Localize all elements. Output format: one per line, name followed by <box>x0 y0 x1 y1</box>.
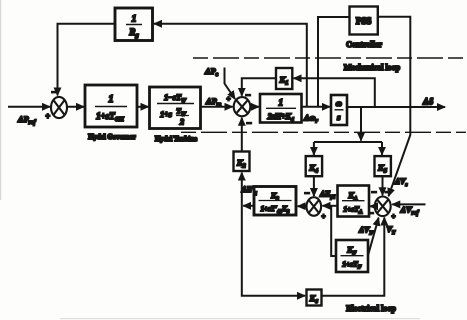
wire Δδ branch down to K4/K5 <box>360 107 362 140</box>
wire turbine to S2 <box>201 106 233 108</box>
dashed boundary line (mechanical/electrical split) <box>181 131 466 133</box>
svg-text:Controller: Controller <box>346 40 382 49</box>
wire speed to PSS input <box>318 17 350 106</box>
wire K_F output to S4 (ΔV_F) <box>368 218 379 256</box>
block K5 <box>375 156 391 176</box>
wire S3 to field block <box>298 205 307 207</box>
wire ΔV_ref input <box>392 203 425 205</box>
wire K6 to S4 bottom (V_T) <box>322 218 385 296</box>
svg-text:PSS: PSS <box>356 16 372 26</box>
block turbine (1-sT_W)/(1+sT_W/2) <box>150 87 201 129</box>
svg-text:2: 2 <box>179 118 184 127</box>
wire Δδ tap to K1 <box>294 78 375 106</box>
svg-text:1: 1 <box>278 98 283 108</box>
scan artifact bottom edge <box>60 318 420 320</box>
svg-text:1+s: 1+s <box>160 110 172 119</box>
svg-text:+: + <box>227 95 231 103</box>
summing junction S4 (voltage) <box>375 197 391 217</box>
svg-text:−: − <box>372 187 377 197</box>
block swing 1/(2sH+K_d) <box>260 94 302 123</box>
svg-text:s: s <box>336 112 341 122</box>
wire ΔP_e disturbance input <box>225 68 236 100</box>
block governor 1/(1+sT_GH) <box>85 85 137 127</box>
wire K4 to S3 <box>313 176 315 196</box>
svg-text:Electrical loop: Electrical loop <box>346 304 396 313</box>
wire 1/R_g output to S1 top <box>58 24 116 96</box>
block K_F/(1+sT_F) <box>336 240 368 272</box>
svg-text:1: 1 <box>109 94 114 105</box>
svg-text:+: + <box>392 213 396 221</box>
dashed boundary line (mechanical loop top) <box>193 57 466 59</box>
wire K5 to S4 <box>382 176 384 195</box>
svg-text:+: + <box>46 112 51 121</box>
block K4 <box>306 156 322 176</box>
svg-text:−: − <box>247 118 252 128</box>
svg-text:−: − <box>52 87 57 97</box>
summing junction S2 (torque) <box>234 97 251 116</box>
wire K2 to S2 bottom <box>241 118 243 152</box>
wire K1 output to S2 top <box>242 78 276 96</box>
wire K_A to S3 (ΔE_fd) <box>323 205 338 207</box>
node vertical ΔE'_q to K2 and K6 <box>241 173 243 206</box>
wire S1 to governor <box>67 106 84 108</box>
scan artifact left edge <box>0 0 2 200</box>
block ω_s/s integrator <box>331 95 347 125</box>
svg-text:Hydel Turbine: Hydel Turbine <box>155 136 197 143</box>
svg-text:Δδ: Δδ <box>422 97 434 107</box>
summing junction S3 (field) <box>307 197 322 216</box>
wire S2 to swing block <box>250 106 258 108</box>
svg-text:−: − <box>385 187 390 197</box>
wire split to K4 and K5 <box>314 142 382 155</box>
wire Δδ output <box>347 106 445 108</box>
svg-text:Hydel Governor: Hydel Governor <box>88 134 135 141</box>
svg-text:Mechanical loop: Mechanical loop <box>344 63 401 72</box>
wire field output ΔE'_q to node <box>243 205 254 207</box>
wire ΔE_fd tap to K_F <box>331 206 336 256</box>
svg-text:1: 1 <box>132 15 137 25</box>
svg-text:+: + <box>322 213 326 221</box>
wire swing to ω/s block <box>302 106 330 108</box>
block K1 <box>276 68 292 89</box>
block K2 <box>234 152 250 172</box>
wire ΔP_ref input <box>8 106 50 108</box>
wire governor to turbine <box>137 106 149 108</box>
wire S4 to exciter K_A <box>370 205 375 207</box>
wire PSS output to S4 (ΔV_s) <box>378 17 411 196</box>
wire droop feedback from speed to 1/R_g <box>154 24 307 107</box>
block 1/R_g droop <box>115 8 153 41</box>
svg-text:−: − <box>246 90 251 100</box>
block field K_3/(1+sT'_d0 K_3) <box>254 187 296 216</box>
svg-text:−: − <box>305 188 310 198</box>
svg-text:ω: ω <box>336 98 342 108</box>
summing junction S1 <box>51 97 67 118</box>
block K6 <box>307 290 322 306</box>
block PSS controller <box>350 7 378 35</box>
block exciter K_A/(1+sT_A) <box>338 186 370 217</box>
